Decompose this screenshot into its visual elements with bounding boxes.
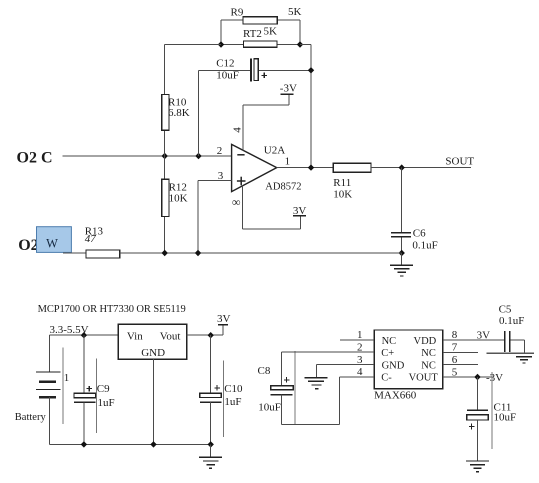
power -3V bar op-amp (280, 82, 297, 94)
wire R9 left vertical (220, 20, 222, 45)
node W highlight box (37, 227, 72, 253)
capacitor C9 (74, 335, 115, 444)
wire op-amp output (277, 167, 334, 169)
svg-text:0.1uF: 0.1uF (499, 315, 524, 327)
svg-text:Vin: Vin (127, 330, 143, 342)
svg-text:NC: NC (421, 360, 436, 371)
svg-text:6.8K: 6.8K (168, 107, 190, 119)
svg-text:3V: 3V (217, 313, 231, 325)
power -3V label pin5 (486, 372, 503, 384)
wire pin 6 stub (443, 364, 478, 366)
pin 4 number (357, 366, 363, 378)
junction dot bottom/R12 (162, 250, 168, 256)
regulator U3 (118, 324, 186, 359)
resistor RT2 (221, 26, 300, 48)
junction dot C9 bottom (81, 441, 87, 447)
svg-text:AD8572: AD8572 (265, 182, 301, 193)
junction dot C10 bottom (208, 441, 214, 447)
resistor R11 (333, 163, 471, 200)
pin 1 number (357, 329, 363, 341)
svg-text:1uF: 1uF (224, 396, 241, 408)
svg-text:5: 5 (452, 366, 458, 378)
wire op-amp pin 3 input (198, 181, 232, 254)
svg-text:MCP1700 OR HT7330 OR SE5119: MCP1700 OR HT7330 OR SE5119 (38, 304, 186, 315)
junction dot pin5/C11 (474, 374, 480, 380)
svg-text:2: 2 (217, 145, 223, 157)
wire op-amp pin 4 to -3V (243, 94, 289, 150)
node 3.3-5.5V label (50, 324, 89, 336)
pin 1 label (285, 156, 291, 168)
pin 4 label (232, 127, 244, 133)
svg-text:U2A: U2A (264, 145, 285, 157)
resistor R10 (162, 45, 190, 157)
svg-text:1: 1 (285, 156, 291, 168)
svg-text:10uF: 10uF (258, 401, 281, 413)
power 3V bar regulator (217, 313, 231, 325)
node O2 C label (17, 149, 53, 166)
svg-text:RT2: RT2 (243, 28, 262, 40)
junction dot pin2/R10 (162, 153, 168, 159)
junction dot output/feedback (308, 164, 314, 170)
svg-text:NC: NC (382, 336, 397, 347)
junction dot RT2 right (297, 41, 303, 47)
resistor R9 (221, 6, 302, 24)
pin 8 label (232, 195, 241, 209)
svg-text:C-: C- (381, 373, 392, 384)
wire R9 right vertical (299, 20, 301, 45)
svg-text:C+: C+ (381, 348, 394, 359)
svg-text:R9: R9 (231, 7, 244, 19)
svg-text:3V: 3V (293, 205, 307, 217)
capacitor C5 (499, 303, 525, 353)
wire Vout to 3V (187, 325, 223, 335)
svg-text:∞: ∞ (232, 195, 241, 209)
power 3V bar op-amp (293, 205, 307, 217)
svg-text:C5: C5 (499, 303, 512, 315)
resistor R12 (162, 156, 188, 253)
svg-text:5K: 5K (264, 26, 278, 38)
pin 3 label (218, 170, 224, 182)
node O2 label (18, 237, 38, 254)
svg-text:R11: R11 (333, 177, 351, 189)
svg-text:8: 8 (452, 329, 458, 341)
svg-text:-3V: -3V (280, 82, 297, 94)
wire RT2 right to feedback vertical (300, 44, 311, 46)
pin 2 label (217, 145, 223, 157)
svg-text:SOUT: SOUT (445, 156, 474, 168)
wire C8 bottom to pin 4 (281, 377, 339, 425)
wire RT2 left to R10 branch (165, 44, 221, 46)
pin 3 number (357, 354, 363, 366)
svg-text:7: 7 (452, 342, 458, 354)
svg-text:10uF: 10uF (494, 412, 517, 424)
svg-text:10K: 10K (169, 193, 188, 205)
svg-text:6: 6 (452, 354, 458, 366)
pin 7 number (452, 342, 458, 354)
svg-text:5K: 5K (288, 6, 302, 18)
capacitor C6 (391, 168, 438, 253)
power 3V label pin8 (477, 330, 491, 342)
junction dot bottom/pin3 (195, 250, 201, 256)
junction dot C6/bottom wire (399, 250, 405, 256)
wire pin 3 GND (317, 364, 374, 366)
junction dot C10 top (208, 332, 214, 338)
title regulator options (38, 304, 186, 315)
svg-text:C8: C8 (258, 365, 271, 377)
svg-text:R12: R12 (169, 181, 187, 193)
svg-text:Vout: Vout (160, 330, 181, 342)
IC MAX660 (374, 330, 443, 402)
svg-text:4: 4 (357, 366, 363, 378)
wire O2 C input to pin 2 (63, 155, 232, 157)
capacitor C11 (467, 372, 516, 461)
junction dot RT2 left (218, 41, 224, 47)
wire battery to Vin (50, 334, 119, 336)
svg-text:0.1uF: 0.1uF (412, 239, 437, 251)
wire regulator GND down (153, 359, 155, 444)
capacitor C10 (200, 335, 243, 444)
pin 5 number (452, 366, 458, 378)
pin 2 number (357, 341, 363, 353)
svg-text:1: 1 (64, 372, 70, 384)
ground C5 (487, 353, 534, 363)
wire pin 8 VDD to C5 (443, 339, 504, 341)
svg-text:-3V: -3V (486, 372, 503, 384)
node SOUT (445, 156, 474, 168)
ground regulator rail (199, 444, 222, 468)
svg-text:O2 C: O2 C (17, 149, 53, 166)
wire feedback vertical (310, 45, 312, 168)
pin 6 number (452, 354, 458, 366)
svg-text:O2: O2 (18, 237, 38, 254)
svg-text:1uF: 1uF (98, 397, 115, 409)
wire pin 2 C+ (281, 351, 374, 353)
svg-text:VOUT: VOUT (409, 373, 439, 384)
wire pin 5 VOUT (443, 376, 492, 378)
svg-text:VDD: VDD (414, 336, 437, 347)
svg-text:4: 4 (232, 127, 244, 133)
svg-text:10K: 10K (333, 189, 352, 201)
wire bottom rail (120, 252, 402, 254)
junction dot pin2/C12 (195, 153, 201, 159)
resistor R13 (85, 225, 120, 258)
op-amp U2A (232, 144, 302, 192)
battery 1 (15, 335, 70, 444)
junction dot C9 top (81, 332, 87, 338)
svg-text:GND: GND (141, 347, 165, 359)
wire regulator bottom rail (50, 443, 211, 445)
svg-text:10uF: 10uF (216, 69, 239, 81)
svg-text:47: 47 (85, 233, 97, 245)
svg-text:C6: C6 (413, 228, 426, 240)
junction dot GND bottom (150, 441, 156, 447)
svg-text:GND: GND (382, 360, 405, 371)
wire O2 W to R13 (63, 252, 86, 254)
ground below C6 (390, 253, 413, 276)
wire pin 7 stub (443, 351, 478, 353)
svg-text:3V: 3V (477, 330, 491, 342)
svg-text:3: 3 (357, 354, 363, 366)
ground C11 (466, 461, 489, 472)
svg-text:NC: NC (421, 348, 436, 359)
wire pin 4 C- (340, 376, 374, 378)
svg-text:C12: C12 (216, 58, 234, 70)
wire op-amp pin 8 to 3V (243, 186, 301, 229)
pin 8 number (452, 329, 458, 341)
svg-text:Battery: Battery (15, 412, 47, 423)
svg-text:W: W (46, 236, 58, 250)
ground MAX660 pin 3 (304, 365, 327, 389)
capacitor C12 (199, 58, 312, 156)
svg-text:C10: C10 (224, 383, 243, 395)
svg-text:C9: C9 (97, 383, 110, 395)
svg-text:2: 2 (357, 341, 363, 353)
junction dot R11/C6 (399, 164, 405, 170)
junction dot C12 right (308, 67, 314, 73)
svg-text:MAX660: MAX660 (374, 390, 417, 402)
wire pin 1 stub (340, 339, 374, 341)
capacitor C8 (258, 351, 295, 425)
svg-text:1: 1 (357, 329, 363, 341)
